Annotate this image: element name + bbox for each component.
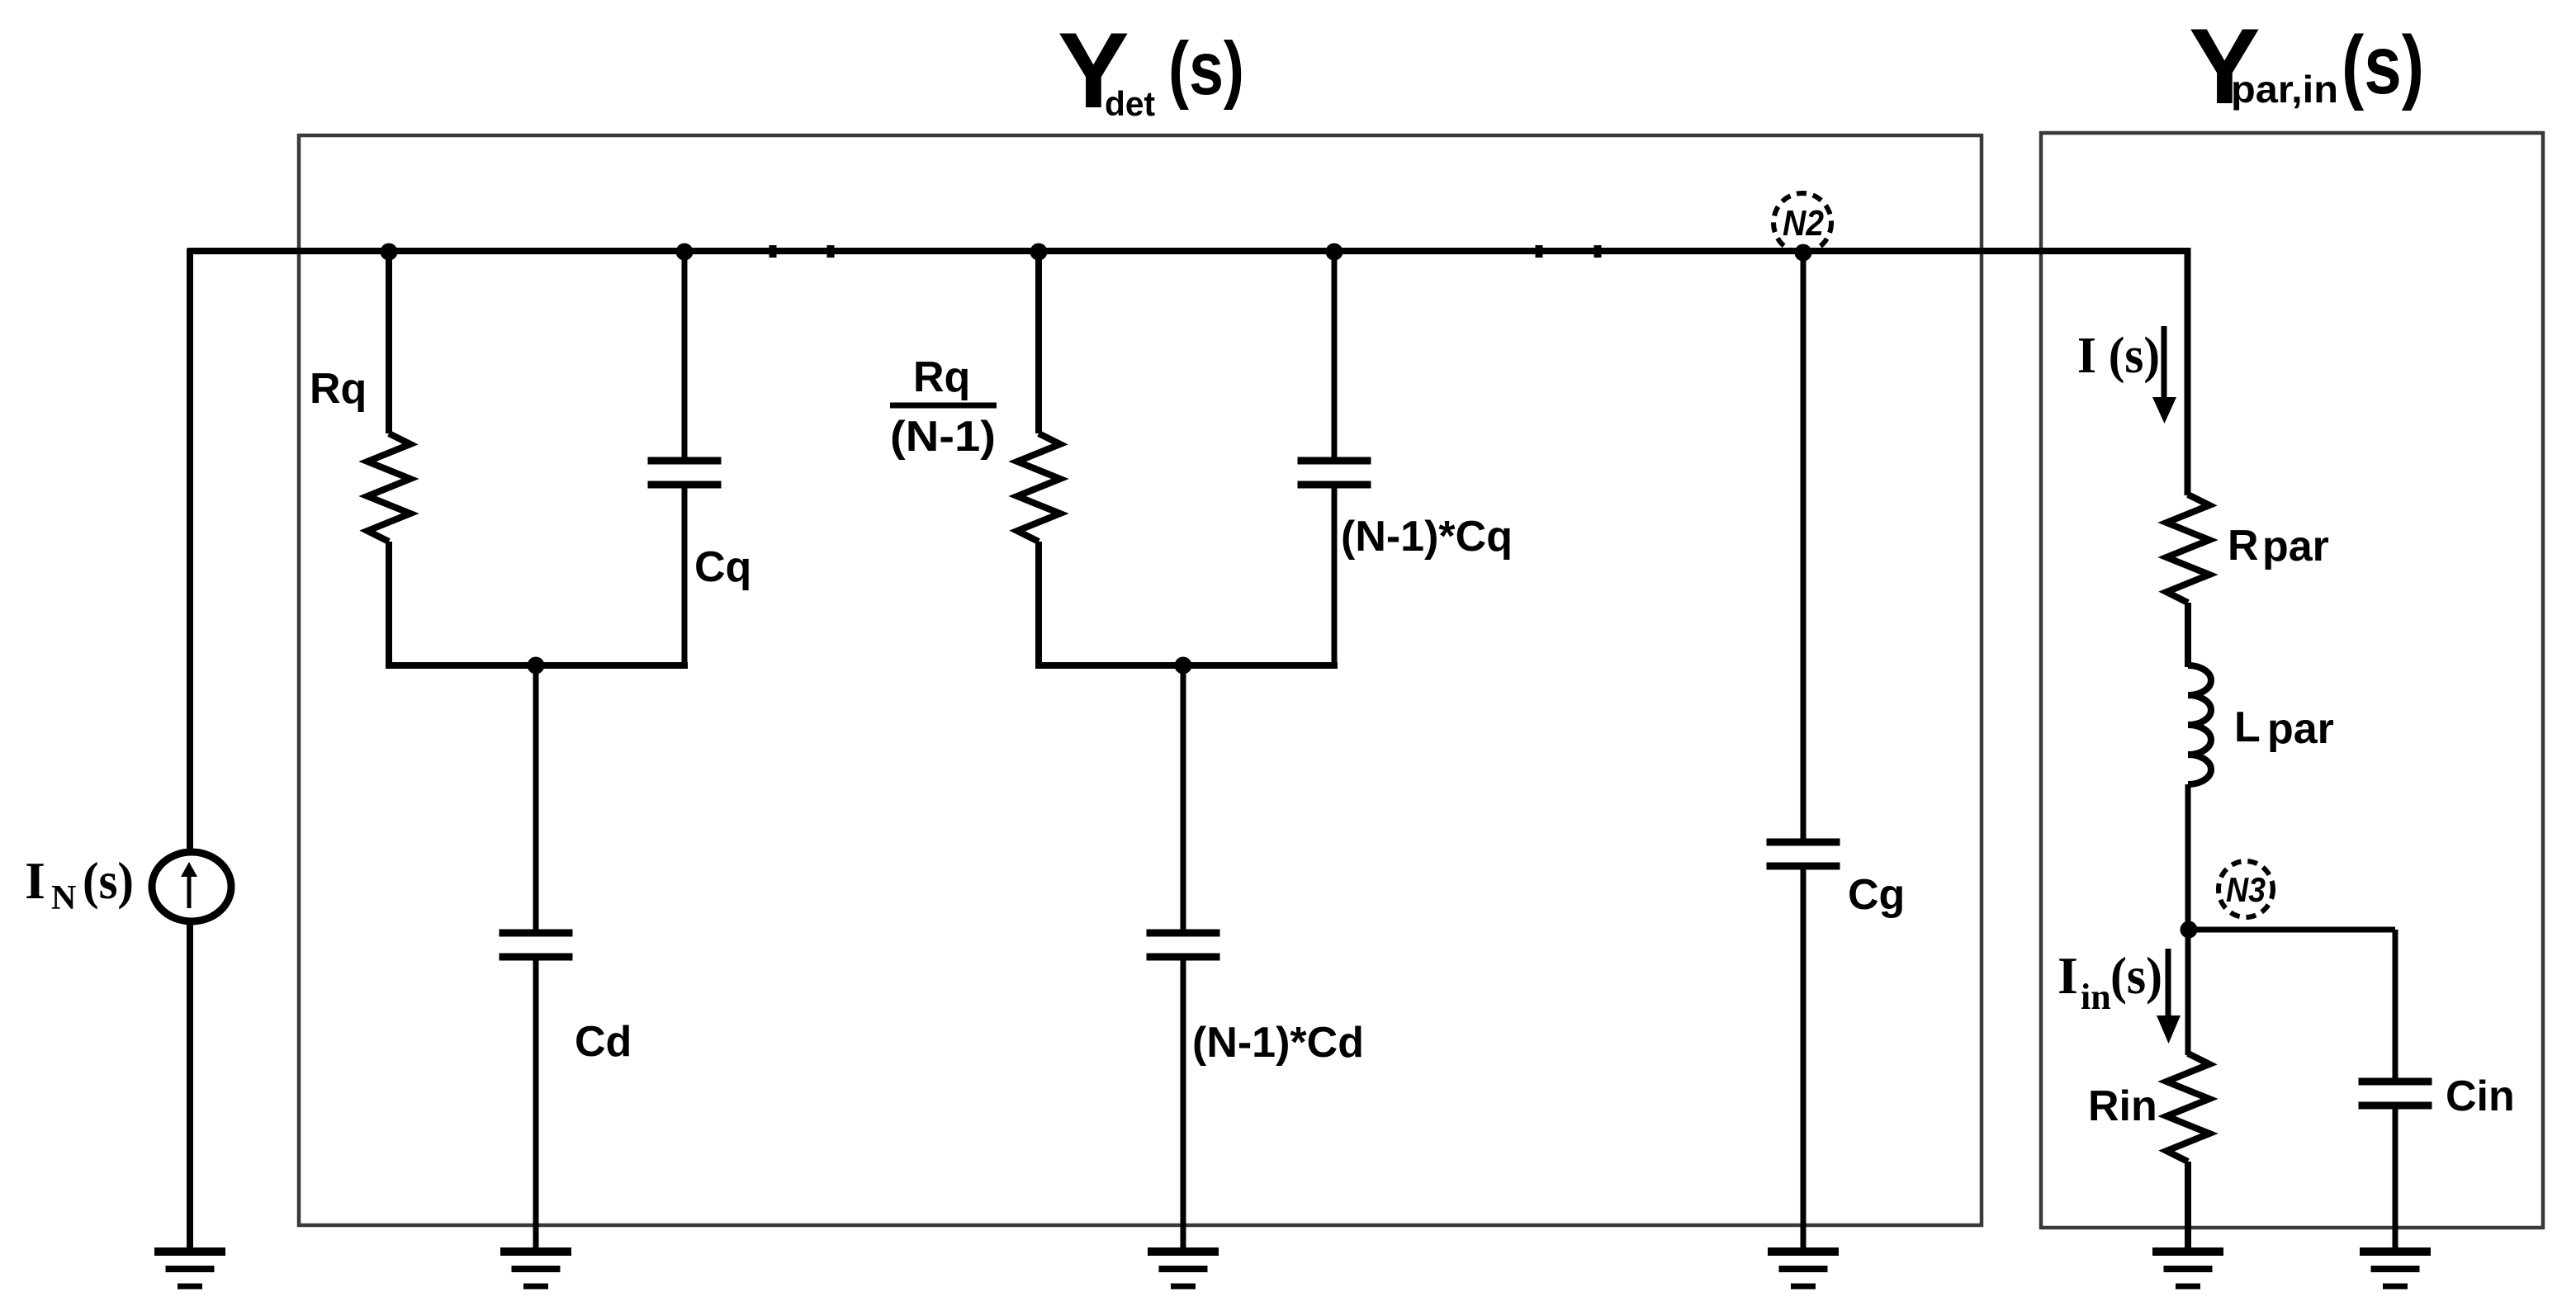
svg-text:R: R xyxy=(2228,522,2259,570)
tick mark xyxy=(1536,245,1543,258)
wire connector bar (Rq/Cq bottom) xyxy=(386,662,688,669)
svg-text:(s): (s) xyxy=(2110,946,2162,1005)
svg-text:I (s): I (s) xyxy=(2077,328,2160,384)
svg-text:Rq: Rq xyxy=(310,365,367,413)
ground (Rin) xyxy=(2152,1252,2223,1286)
svg-text:L: L xyxy=(2234,703,2261,751)
capacitor Cin xyxy=(2359,930,2432,1249)
wire N3 to Cin xyxy=(2189,927,2395,933)
box Y_par,in xyxy=(2041,133,2543,1228)
junction dot (Cq top) xyxy=(676,244,694,261)
capacitor Cq xyxy=(648,251,722,666)
svg-text:N2: N2 xyxy=(1783,203,1824,244)
junction dot (Cd top) xyxy=(528,657,545,675)
capacitor (N-1)*Cd xyxy=(1147,665,1220,1249)
svg-text:(N-1)*Cq: (N-1)*Cq xyxy=(1341,513,1513,561)
box Y_det xyxy=(299,135,1982,1225)
resistor Rq/(N-1) xyxy=(1017,251,1060,666)
junction dot (N3) xyxy=(2181,921,2198,939)
svg-text:N: N xyxy=(51,879,76,917)
label Rq/(N-1) fraction xyxy=(890,353,997,461)
svg-text:I: I xyxy=(25,851,45,910)
svg-text:Cg: Cg xyxy=(1848,871,1905,919)
junction dot (N2) xyxy=(1795,244,1812,262)
ground (Cd) xyxy=(500,1252,571,1286)
wire connector bar (middle bottom) xyxy=(1035,662,1338,669)
wire Lpar to N3 xyxy=(2185,784,2191,1055)
svg-text:par: par xyxy=(2267,705,2334,753)
svg-text:(s): (s) xyxy=(83,851,134,910)
label Lpar xyxy=(2234,703,2334,753)
svg-text:N3: N3 xyxy=(2226,870,2266,909)
label Rpar xyxy=(2228,522,2329,570)
ground (Cin) xyxy=(2360,1252,2431,1286)
current source IN xyxy=(152,852,231,921)
node N2 xyxy=(1773,193,1831,253)
junction dot ((N-1)*Cq top) xyxy=(1326,244,1343,261)
svg-text:I: I xyxy=(2057,946,2078,1005)
svg-text:Cin: Cin xyxy=(2446,1072,2515,1120)
wire current source bottom lead xyxy=(187,924,193,1249)
node N3 xyxy=(2218,861,2273,917)
label IN(s) xyxy=(25,851,134,917)
label Iin(s) xyxy=(2057,946,2162,1017)
wire main node rail N2 xyxy=(187,251,2188,495)
inductor Lpar xyxy=(2188,665,2211,784)
capacitor (N-1)*Cq xyxy=(1298,251,1371,666)
junction dot ((N-1)*Cd top) xyxy=(1175,657,1192,675)
tick mark xyxy=(1594,245,1602,258)
junction dot (Rq/(N-1) top) xyxy=(1030,244,1048,261)
capacitor Cg xyxy=(1767,251,1840,1249)
capacitor Cd xyxy=(500,665,573,1249)
wire current source top lead xyxy=(187,249,193,850)
tick mark xyxy=(769,245,777,258)
ground ((N-1)*Cd) xyxy=(1148,1252,1219,1286)
svg-text:(s): (s) xyxy=(2342,19,2424,111)
resistor Rq xyxy=(367,251,410,666)
arrow I(s) xyxy=(2152,326,2176,424)
svg-text:par,in: par,in xyxy=(2231,68,2338,111)
svg-text:(N-1)*Cd: (N-1)*Cd xyxy=(1192,1019,1364,1067)
svg-text:Cd: Cd xyxy=(575,1018,632,1066)
tick mark xyxy=(827,245,835,258)
label I(s) xyxy=(2077,328,2160,384)
svg-text:Rq: Rq xyxy=(913,353,970,401)
svg-text:det: det xyxy=(1105,84,1155,123)
svg-text:(s): (s) xyxy=(1168,27,1244,111)
ground (Cg) xyxy=(1768,1252,1839,1286)
label Y_det(s) xyxy=(1058,10,1244,130)
resistor Rin xyxy=(2166,1053,2209,1249)
ground (current source) xyxy=(154,1252,225,1286)
svg-text:in: in xyxy=(2081,977,2111,1017)
svg-text:(N-1): (N-1) xyxy=(890,413,996,461)
label Y_par,in(s) xyxy=(2189,6,2424,126)
svg-text:Rin: Rin xyxy=(2088,1082,2157,1130)
svg-text:par: par xyxy=(2262,523,2329,570)
svg-text:Cq: Cq xyxy=(694,543,751,591)
junction dot (Rq top) xyxy=(381,244,398,261)
resistor Rpar xyxy=(2166,494,2209,667)
arrow Iin(s) xyxy=(2157,949,2181,1044)
